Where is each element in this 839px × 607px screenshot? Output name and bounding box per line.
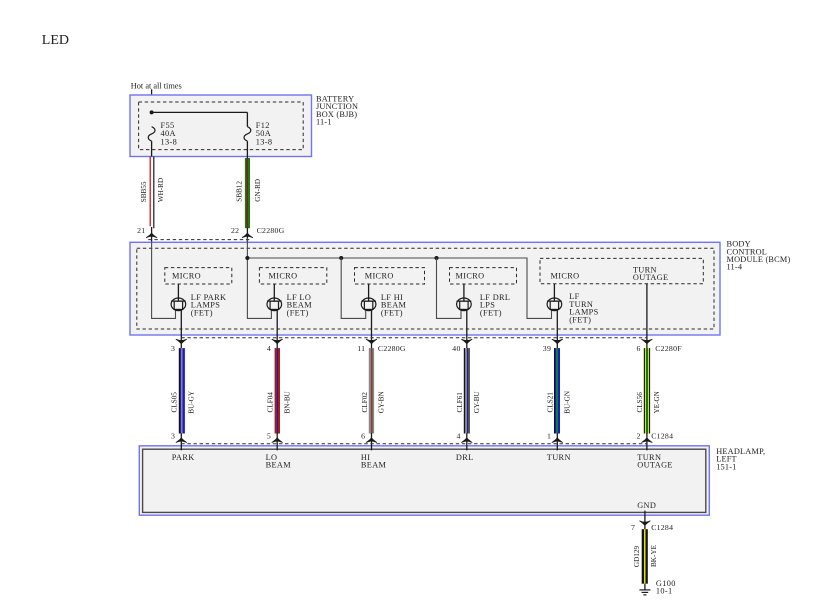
- wire FET3 output: [371, 309, 373, 348]
- svg-text:6: 6: [637, 344, 641, 353]
- wire hi beam stem into headlamp: [371, 433, 373, 450]
- wire drl stem into headlamp: [466, 433, 468, 450]
- svg-text:OUTAGE: OUTAGE: [637, 461, 673, 470]
- svg-text:5: 5: [267, 431, 271, 440]
- wire CLS56 YE-GN: [644, 348, 650, 433]
- svg-text:BEAM: BEAM: [266, 461, 292, 470]
- wire below F12: [246, 141, 248, 158]
- svg-text:LED: LED: [42, 33, 69, 48]
- svg-text:PARK: PARK: [172, 453, 195, 462]
- node bus dot 3: [434, 256, 438, 260]
- connector C2280G dashed line below BCM: [181, 337, 647, 339]
- node junction dot F55 feed: [150, 110, 154, 114]
- svg-text:21: 21: [137, 226, 145, 235]
- fuse F12 50A: [244, 127, 251, 141]
- svg-text:11-1: 11-1: [316, 118, 332, 127]
- svg-text:3: 3: [171, 344, 175, 353]
- connector arrow up turn: [552, 437, 563, 443]
- connector arrow up drl: [461, 437, 472, 443]
- connector arrow down pin7: [639, 520, 650, 526]
- headlamp inner border: [143, 449, 706, 512]
- svg-text:GY-BN: GY-BN: [378, 391, 386, 414]
- svg-text:1: 1: [547, 431, 551, 440]
- svg-text:OUTAGE: OUTAGE: [633, 273, 669, 282]
- svg-text:(FET): (FET): [381, 308, 403, 317]
- svg-text:SBB55: SBB55: [140, 181, 148, 202]
- wire below F55: [151, 141, 153, 156]
- transistor FET4 LF DRL LPS: [457, 284, 472, 311]
- connector arrow down pin3: [176, 339, 187, 345]
- transistor FET2 LF LO BEAM: [267, 284, 282, 311]
- wire turn outage output: [646, 284, 648, 349]
- svg-text:BEAM: BEAM: [361, 461, 387, 470]
- headlamp left box: [139, 446, 709, 515]
- svg-text:13-8: 13-8: [256, 137, 273, 146]
- micro box 3: [355, 268, 425, 284]
- wire FET1 output: [180, 309, 182, 348]
- connector arrow down pin40: [461, 339, 472, 345]
- wire feed FET4: [437, 258, 462, 318]
- svg-text:C2280G: C2280G: [257, 226, 285, 235]
- wire SBB12 GN-RD: [245, 158, 250, 228]
- wire CLF02 GY-BN: [369, 348, 374, 433]
- connector arrow up outage: [641, 437, 652, 443]
- wire feed FET1: [152, 242, 176, 318]
- svg-text:11-4: 11-4: [727, 263, 743, 272]
- svg-text:11: 11: [357, 344, 365, 353]
- svg-text:7: 7: [631, 523, 635, 532]
- connector arrow 21: [146, 233, 157, 239]
- svg-text:TURN: TURN: [547, 453, 571, 462]
- wire to ground: [644, 584, 646, 590]
- svg-text:MICRO: MICRO: [365, 271, 394, 280]
- svg-text:C2280F: C2280F: [655, 344, 682, 353]
- micro box 1: [165, 268, 232, 284]
- svg-text:151-1: 151-1: [716, 462, 736, 471]
- svg-text:CLS05: CLS05: [171, 392, 179, 413]
- wire CLS21 BU-GN: [554, 348, 560, 433]
- svg-text:MICRO: MICRO: [269, 271, 298, 280]
- wire feed FET2: [247, 238, 271, 318]
- wire FET5 output: [556, 309, 558, 348]
- svg-text:DRL: DRL: [456, 453, 474, 462]
- micro box 2: [259, 268, 326, 284]
- svg-text:C2280G: C2280G: [378, 344, 406, 353]
- transistor FET3 LF HI BEAM: [361, 284, 376, 311]
- connector arrow up park: [176, 437, 187, 443]
- svg-text:GN-RD: GN-RD: [254, 179, 262, 202]
- svg-text:GD129: GD129: [633, 546, 641, 568]
- wire FET2 output: [276, 309, 278, 348]
- svg-text:2: 2: [637, 431, 641, 440]
- svg-text:(FET): (FET): [569, 315, 591, 324]
- svg-text:(FET): (FET): [287, 308, 309, 317]
- svg-text:BK-YE: BK-YE: [650, 544, 658, 567]
- svg-text:40: 40: [452, 344, 460, 353]
- svg-text:SBB12: SBB12: [236, 181, 244, 202]
- svg-text:MICRO: MICRO: [172, 271, 201, 280]
- wire park stem into headlamp: [180, 433, 182, 450]
- svg-text:13-8: 13-8: [161, 137, 178, 146]
- fuse F55 40A: [148, 127, 155, 141]
- wire GND pin 7: [644, 511, 646, 530]
- micro box 5 with turn outage: [540, 258, 703, 283]
- svg-text:(FET): (FET): [191, 308, 213, 317]
- svg-text:CLS56: CLS56: [636, 392, 644, 413]
- wire SBB55 WH-RD: [149, 157, 151, 227]
- svg-text:C1284: C1284: [651, 523, 673, 532]
- wire bus from F12: [247, 258, 551, 318]
- wire bus to F12: [152, 111, 248, 113]
- svg-text:BN-BU: BN-BU: [283, 390, 291, 413]
- BJB inner dashed border: [139, 102, 304, 150]
- body control module BCM: [130, 242, 720, 335]
- wire turn outage stem into headlamp: [646, 433, 648, 450]
- svg-text:CLF02: CLF02: [361, 392, 369, 413]
- node bus dot 1: [245, 256, 249, 260]
- connector arrow 22: [242, 233, 253, 239]
- wire CLS05 BU-GY: [179, 348, 185, 433]
- micro box 4: [450, 268, 517, 284]
- connector arrow up hi: [366, 437, 377, 443]
- BCM inner dashed border: [137, 248, 714, 329]
- transistor FET1 LF PARK LAMPS: [171, 284, 186, 311]
- svg-text:BU-GY: BU-GY: [188, 390, 196, 414]
- svg-text:CLS21: CLS21: [547, 392, 555, 413]
- wire feed FET3: [341, 258, 366, 318]
- svg-text:39: 39: [543, 344, 551, 353]
- wire F12 feed: [246, 112, 248, 126]
- svg-text:WH-RD: WH-RD: [157, 178, 165, 202]
- wire hot feed into BJB: [151, 89, 153, 126]
- svg-text:6: 6: [361, 431, 365, 440]
- wire FET4 output: [466, 309, 468, 348]
- svg-text:(FET): (FET): [480, 308, 502, 317]
- wire CLF04 BN-BU: [275, 348, 280, 433]
- svg-text:22: 22: [231, 226, 239, 235]
- svg-text:C1284: C1284: [651, 431, 673, 440]
- svg-text:3: 3: [171, 431, 175, 440]
- battery junction box BJB: [130, 95, 312, 157]
- ground G100: [639, 590, 650, 595]
- svg-text:MICRO: MICRO: [551, 271, 580, 280]
- connector C1284 dashed line: [181, 443, 647, 445]
- wire GD129 BK-YE: [642, 529, 648, 584]
- node bus dot 2: [339, 256, 343, 260]
- connector arrow down pin11: [366, 339, 377, 345]
- connector arrow down pin39: [552, 339, 563, 345]
- svg-text:MICRO: MICRO: [456, 271, 485, 280]
- svg-text:YE-GN: YE-GN: [653, 390, 661, 413]
- wire CLF61 GY-BU: [464, 348, 470, 433]
- svg-text:4: 4: [267, 344, 271, 353]
- connector arrow down pin4: [272, 339, 283, 345]
- connector arrow down pin6: [641, 339, 652, 345]
- svg-text:CLF61: CLF61: [456, 392, 464, 413]
- connector C2280G dashed line: [148, 239, 250, 241]
- svg-text:GND: GND: [637, 501, 656, 510]
- svg-text:BU-GN: BU-GN: [564, 390, 572, 414]
- transistor FET5 LF TURN LAMPS: [547, 284, 562, 311]
- wire lo beam stem into headlamp: [276, 433, 278, 450]
- wire turn stem into headlamp: [556, 433, 558, 450]
- svg-text:4: 4: [456, 431, 460, 440]
- svg-text:10-1: 10-1: [656, 587, 673, 596]
- svg-text:CLF04: CLF04: [267, 392, 275, 413]
- connector arrow up lo: [272, 437, 283, 443]
- svg-text:Hot at all times: Hot at all times: [131, 82, 182, 91]
- svg-text:GY-BU: GY-BU: [473, 391, 481, 414]
